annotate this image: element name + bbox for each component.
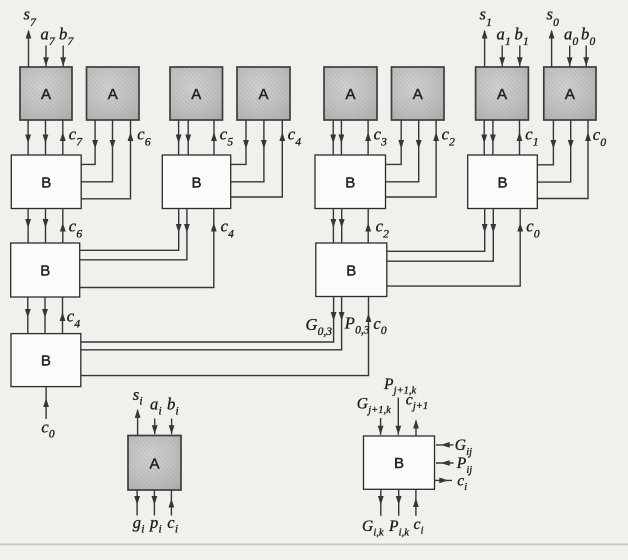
wire G45	[80, 209, 182, 251]
wire c0 up to B1d	[387, 209, 523, 287]
svg-text:B: B	[41, 353, 51, 370]
wire g4	[231, 120, 249, 164]
label b7	[59, 25, 74, 49]
svg-text:A: A	[108, 86, 118, 103]
wire c6 up	[60, 209, 66, 244]
wire a7 input	[43, 46, 49, 67]
wire G67	[25, 209, 31, 244]
wire p0	[537, 120, 573, 182]
label si	[133, 385, 143, 408]
wire c2 up	[365, 209, 371, 244]
wire Pj1k	[395, 398, 401, 435]
wire c0 long	[81, 297, 372, 376]
svg-text:A: A	[565, 86, 575, 103]
svg-text:A: A	[413, 86, 423, 103]
wire p6	[81, 120, 115, 182]
wire c7	[60, 120, 66, 155]
wire s1 output	[482, 30, 488, 68]
wire p3	[339, 120, 345, 155]
label Pj1k	[383, 376, 417, 397]
block B level1 bits32	[315, 155, 386, 209]
block A bit7	[20, 67, 72, 120]
label c1	[525, 125, 538, 149]
label s1	[480, 5, 492, 30]
wire P01	[387, 209, 496, 262]
label gi	[133, 513, 145, 536]
wire Gik	[378, 489, 384, 516]
block A bit4	[237, 67, 290, 120]
label cj1	[406, 392, 428, 413]
label c4 low	[67, 307, 81, 331]
wire gi	[134, 490, 140, 515]
wire g7	[25, 120, 31, 155]
svg-text:B: B	[497, 174, 507, 191]
wire ai	[152, 419, 158, 435]
svg-text:B: B	[346, 262, 356, 279]
label c7	[69, 125, 84, 149]
block A bit1	[476, 67, 529, 120]
wire Gij in	[436, 442, 454, 448]
block B level1 bits10	[468, 155, 538, 209]
wire p4	[231, 120, 267, 182]
label b1	[515, 25, 529, 49]
block B level2 bits7654	[11, 243, 80, 297]
svg-text:B: B	[345, 174, 355, 191]
wire bi	[169, 419, 175, 435]
label a0	[564, 25, 578, 49]
label c0 in	[41, 418, 55, 441]
svg-text:A: A	[258, 86, 268, 103]
label ci	[167, 513, 178, 536]
wire s7 output	[26, 30, 32, 68]
label P03	[344, 314, 370, 337]
wire Gj1k	[378, 418, 384, 435]
label G03	[306, 315, 333, 338]
label ci in	[414, 516, 424, 537]
svg-text:A: A	[149, 455, 159, 472]
wire g1	[481, 120, 487, 155]
label Gij	[455, 437, 472, 458]
label Gj1k	[357, 396, 391, 417]
label c3	[374, 125, 388, 149]
label a1	[497, 25, 511, 49]
wire Pij in	[436, 460, 454, 466]
wire c4 up2	[60, 297, 66, 334]
wire b1 input	[517, 46, 523, 67]
wire c4 to A4	[231, 120, 286, 197]
label c5	[220, 125, 234, 149]
svg-text:B: B	[41, 174, 51, 191]
wire P03	[81, 297, 345, 350]
label c4 mid	[221, 217, 235, 241]
wire p2	[386, 120, 422, 182]
label c0 low	[373, 314, 387, 337]
scan artifact line bottom	[0, 544, 628, 546]
svg-text:B: B	[394, 455, 404, 472]
wire G47	[25, 297, 31, 334]
label c6	[137, 125, 151, 149]
wire c0 input	[43, 387, 49, 419]
label a7	[41, 25, 56, 49]
wire c0 to A0	[537, 120, 591, 199]
label ai	[150, 395, 162, 418]
detail block B	[364, 436, 435, 489]
wire p5	[185, 120, 191, 155]
block B level1 bits76	[11, 155, 81, 209]
wire c3	[365, 120, 371, 155]
svg-text:A: A	[41, 86, 51, 103]
block A bit6	[87, 67, 140, 120]
wire P47	[42, 297, 48, 334]
block B level1 bits54	[162, 155, 230, 209]
block A bit3	[324, 67, 377, 120]
wire s0 output	[549, 30, 555, 68]
wire ci	[169, 490, 175, 515]
svg-text:A: A	[191, 86, 201, 103]
svg-text:B: B	[191, 174, 201, 191]
label Pij	[456, 455, 473, 476]
wire p7	[43, 120, 49, 155]
wire pi	[152, 490, 158, 515]
wire p1	[490, 120, 496, 155]
wire g2	[386, 120, 405, 164]
label s7	[24, 5, 38, 30]
wire a1 input	[499, 46, 505, 67]
wire g6	[81, 120, 98, 164]
wire Pik	[396, 489, 402, 516]
label s0	[547, 5, 560, 30]
label c6 mid	[69, 217, 83, 241]
wire ci in	[413, 489, 419, 516]
label bi	[167, 395, 179, 418]
wire ci out	[435, 478, 453, 484]
wire b0 input	[583, 46, 589, 67]
svg-text:B: B	[40, 263, 50, 280]
wire si	[135, 409, 141, 435]
wire b7 input	[60, 46, 66, 67]
wire c2 to A2col	[386, 120, 440, 197]
wire g5	[176, 120, 182, 155]
wire G03	[81, 297, 337, 343]
label b0	[581, 25, 595, 49]
wire a0 input	[567, 46, 573, 67]
wire c6 to A6	[81, 120, 133, 199]
label c2	[442, 125, 456, 149]
wire cj1	[413, 420, 419, 437]
wire c1	[517, 120, 523, 155]
wire c5	[211, 120, 217, 155]
wire G01	[387, 209, 488, 252]
wire g0	[537, 120, 556, 165]
wire P45	[80, 209, 190, 260]
label Gik	[362, 518, 384, 539]
label pi	[149, 513, 162, 536]
label Pik	[388, 518, 409, 539]
svg-text:A: A	[497, 86, 507, 103]
label c0	[593, 125, 607, 149]
detail block A	[128, 436, 181, 491]
block A bit5	[170, 67, 223, 120]
block B level2 bits3210	[316, 243, 387, 297]
svg-text:A: A	[345, 86, 355, 103]
wire G23	[331, 209, 337, 244]
block A bit0	[544, 67, 596, 120]
wire P23	[339, 209, 345, 244]
wire c4 up to B1b	[80, 209, 217, 288]
label c4	[288, 125, 302, 149]
wire g3	[330, 120, 336, 155]
block B level3 bits70	[11, 334, 81, 387]
block A bit2	[392, 67, 445, 120]
label ci out	[457, 473, 467, 494]
label c0 mid	[526, 217, 540, 241]
label c2 mid	[376, 217, 390, 241]
wire P67	[43, 209, 49, 244]
